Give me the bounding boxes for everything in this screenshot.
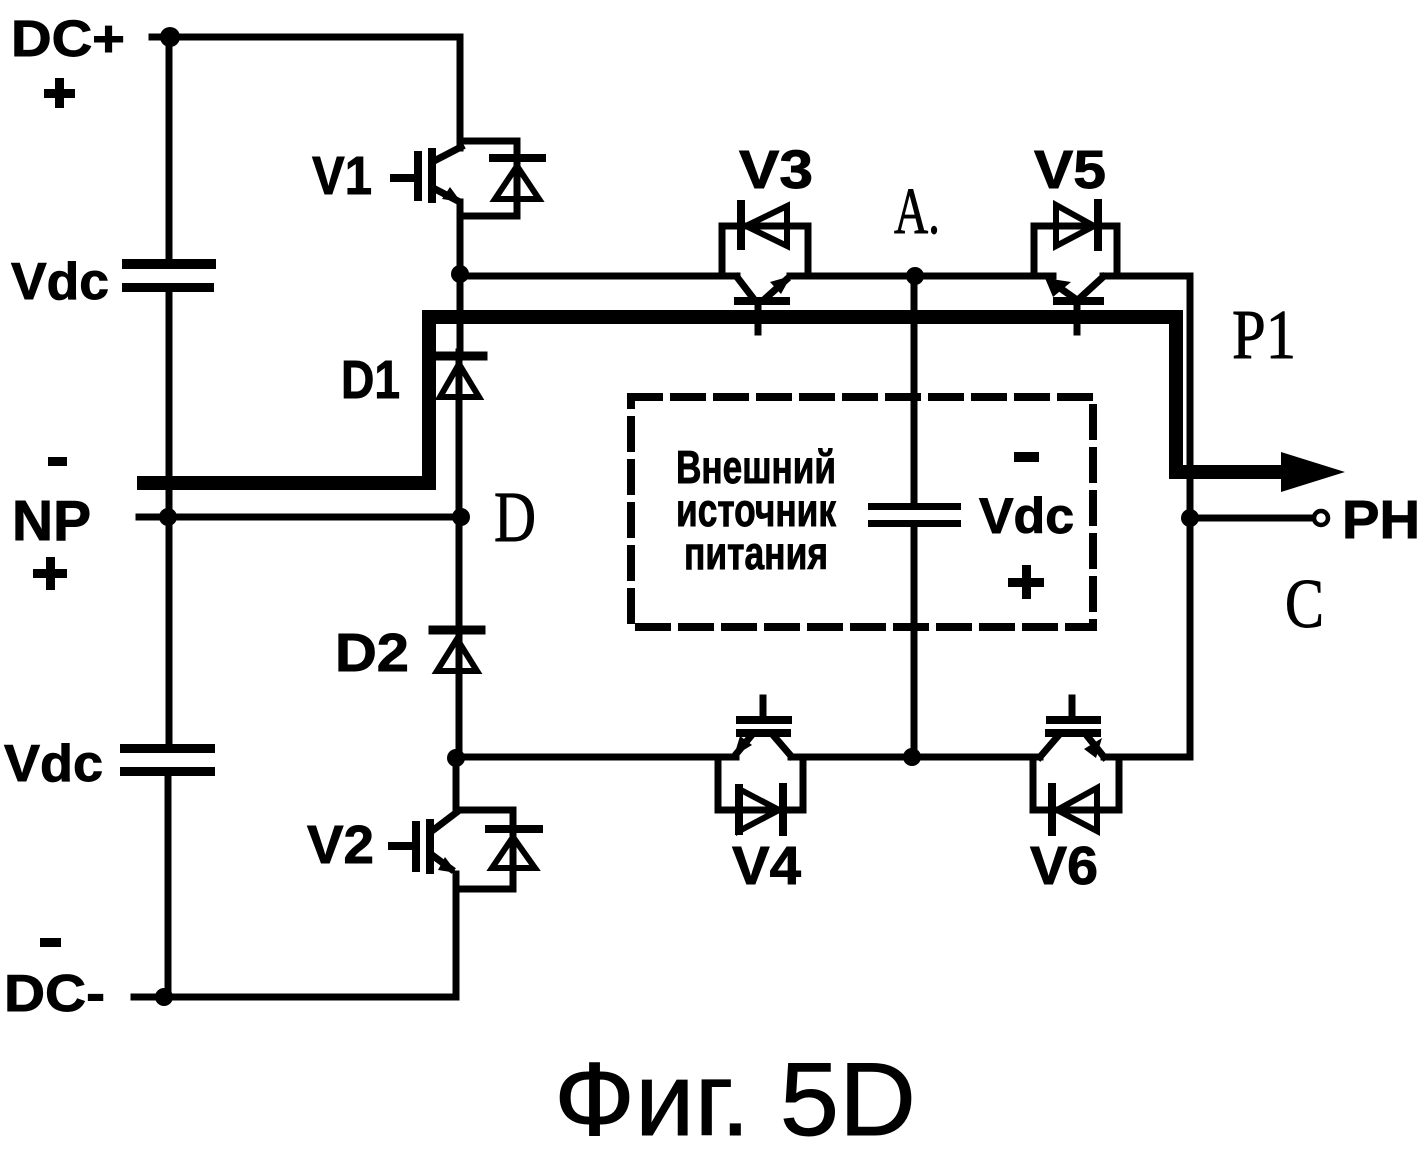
node bottom rail junction dot: [903, 748, 921, 766]
diode of V4: [718, 757, 803, 832]
wire NP to node D: [139, 514, 460, 521]
diode D1: [434, 356, 483, 397]
node DC- junction dot: [155, 988, 173, 1006]
transistor V1 (IGBT): [394, 147, 461, 202]
wire top rail V3 to V5: [790, 273, 1053, 280]
svg-text:V4: V4: [732, 836, 801, 896]
diode of V1 (antiparallel): [461, 141, 542, 216]
capacitor C1 Vdc upper plates: [122, 259, 216, 292]
node PH junction dot: [1181, 509, 1199, 527]
wire DC- bottom rail to V2 emitter: [134, 874, 456, 997]
svg-text:V3: V3: [739, 140, 813, 200]
node NP junction dot: [159, 508, 177, 526]
label + polarity external: [1008, 565, 1044, 599]
svg-text:V2: V2: [307, 815, 374, 875]
svg-text:DC-: DC-: [4, 965, 105, 1023]
capacitor C2 Vdc lower plates: [120, 744, 215, 776]
transistor V6 (IGBT, horizontal): [1040, 698, 1104, 758]
label + polarity NP: [33, 557, 67, 590]
transistor V3 (IGBT, horizontal): [737, 276, 791, 332]
wire top rail V5 to right corner, down to bottom rail: [1103, 276, 1190, 757]
transistor V4 (IGBT, horizontal): [734, 698, 791, 756]
svg-text:P1: P1: [1232, 297, 1296, 374]
wire bottom rail V2 to V4: [456, 754, 736, 761]
capacitor C3 Vdc (external source) plates: [868, 503, 961, 527]
svg-text:V1: V1: [312, 146, 372, 206]
svg-text:D2: D2: [335, 623, 409, 683]
node D junction dot: [452, 508, 470, 526]
node V1 emitter junction dot: [451, 265, 469, 283]
dashed box external power supply: [631, 397, 1093, 627]
svg-text:A.: A.: [894, 175, 940, 248]
diode D2: [433, 630, 481, 671]
wire top rail V1 to V3: [460, 273, 737, 280]
node DC+ junction dot: [160, 27, 180, 47]
svg-text:Vdc: Vdc: [4, 735, 103, 793]
diode of V3: [722, 204, 808, 276]
svg-text:DC+: DC+: [11, 10, 125, 67]
diode of V5: [1034, 203, 1117, 276]
wire V2 collector: [453, 762, 460, 810]
transistor V5 (IGBT, horizontal): [1045, 277, 1103, 332]
svg-text:Фиг. 5D: Фиг. 5D: [554, 1042, 916, 1157]
svg-text:C: C: [1285, 566, 1324, 643]
wire left rail middle: [166, 292, 173, 744]
wire left rail lower: [165, 776, 172, 997]
wire P1 thick path: [144, 317, 1281, 483]
node A junction dot: [906, 267, 924, 285]
svg-text:NP: NP: [12, 489, 91, 553]
svg-text:PH: PH: [1342, 490, 1420, 550]
wire node A vertical upper: [911, 278, 918, 503]
label - polarity DC-: [40, 938, 61, 947]
wire bottom rail V4 to V6: [791, 754, 1040, 761]
svg-text:D: D: [494, 477, 536, 557]
node V2 collector junction dot: [447, 749, 465, 767]
transistor V2 (IGBT): [392, 812, 457, 873]
wire D1 / D node vertical: [456, 352, 463, 758]
svg-text:Vdc: Vdc: [11, 253, 109, 311]
label + polarity top: [44, 78, 75, 108]
svg-text:питания: питания: [684, 527, 828, 579]
wire node A vertical lower: [911, 527, 918, 757]
svg-text:V5: V5: [1034, 140, 1106, 200]
svg-text:V6: V6: [1030, 836, 1098, 896]
terminal PH circle: [1314, 511, 1328, 525]
diode of V2 (antiparallel): [456, 810, 539, 889]
label - polarity NP: [48, 457, 67, 466]
wire V1 emitter down: [457, 202, 464, 352]
wire PH output: [1190, 515, 1312, 522]
svg-text:Vdc: Vdc: [979, 488, 1074, 544]
diode of V6: [1033, 757, 1119, 832]
label - polarity external: [1014, 452, 1039, 462]
wire DC+ top rail: [152, 37, 460, 148]
arrow P1 head: [1281, 452, 1345, 492]
wire left rail upper: [166, 37, 173, 259]
svg-text:D1: D1: [341, 350, 400, 410]
